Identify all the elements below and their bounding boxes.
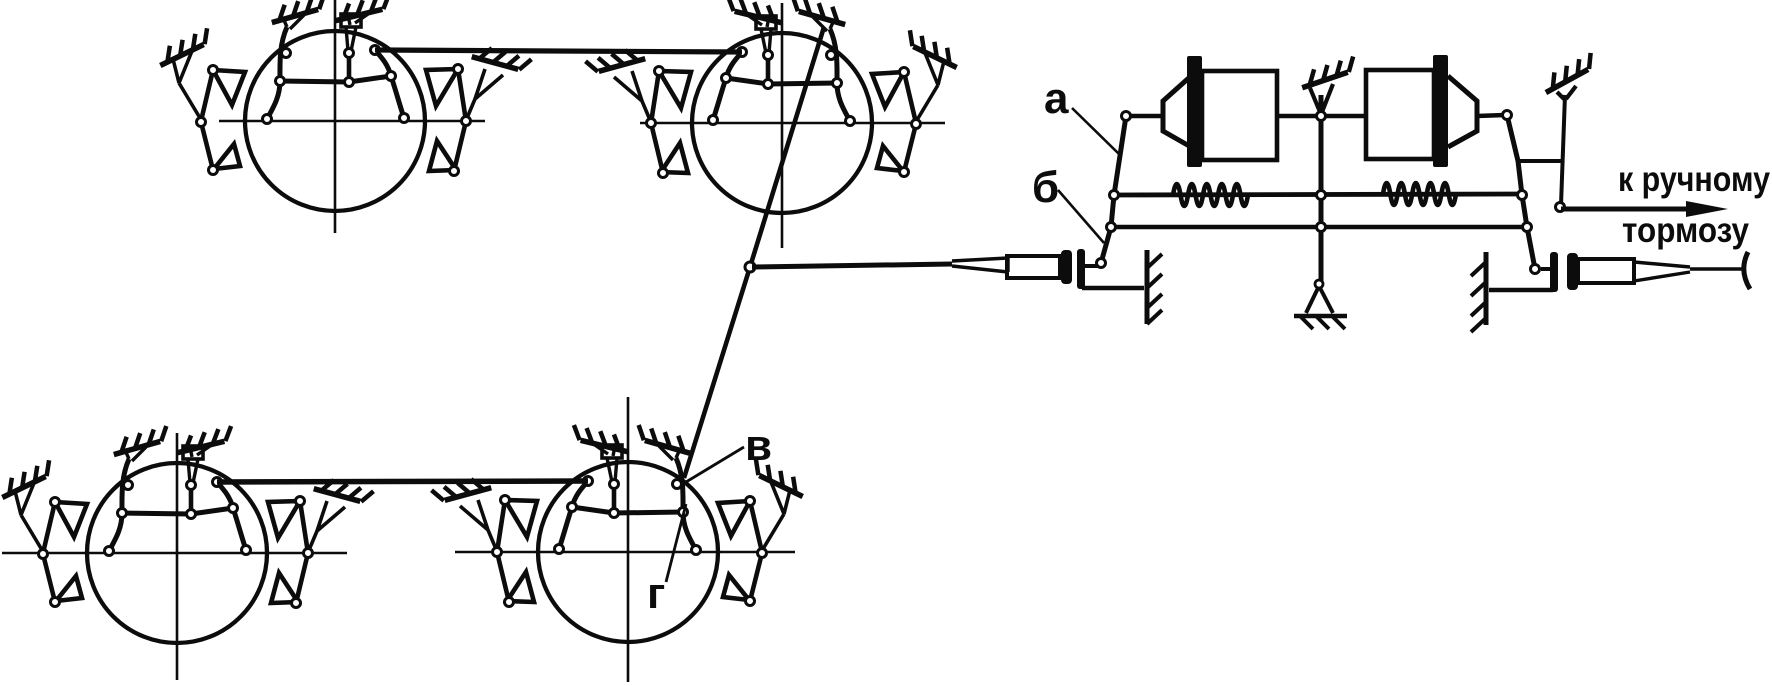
svg-text:в: в bbox=[745, 421, 772, 470]
cylinder 1 cone bbox=[1163, 76, 1191, 147]
right fork bracket bbox=[1541, 267, 1552, 271]
rod end bracket bbox=[1744, 252, 1750, 289]
svg-text:к ручному: к ручному bbox=[1618, 160, 1770, 199]
hand brake arrow bbox=[1561, 207, 1692, 212]
right main lever bbox=[1507, 115, 1535, 269]
left fork bracket bbox=[1077, 249, 1085, 289]
left main lever bbox=[1101, 116, 1126, 263]
spring bar with two springs bbox=[1114, 194, 1521, 195]
cylinder 2 body bbox=[1366, 70, 1434, 159]
cylinder 1 body bbox=[1202, 71, 1277, 160]
left turnbuckle body bbox=[1007, 256, 1060, 278]
cylinder 2 piston plate bbox=[1433, 55, 1448, 167]
link to hand brake column bbox=[1518, 159, 1564, 163]
wheel assembly 1 (front left) bbox=[154, 0, 532, 211]
wheel assembly 4 (rear right, mirrored) bbox=[432, 425, 810, 642]
cylinder 1 piston plate bbox=[1187, 56, 1202, 167]
piston rod left bbox=[1126, 114, 1163, 119]
top connecting rod wheel1-wheel2 bbox=[375, 50, 742, 52]
centre lever bbox=[1319, 95, 1324, 282]
lever nodes bbox=[1122, 112, 1131, 121]
bottom connecting rod wheel3-wheel4 bbox=[217, 481, 588, 482]
left anchor link and hatched wall bbox=[1082, 286, 1144, 291]
lower tie bar bbox=[1111, 225, 1529, 230]
hand brake top support bbox=[1539, 53, 1598, 93]
svg-text:тормозу: тормозу bbox=[1622, 211, 1749, 250]
junction node on pull rod bbox=[745, 262, 755, 272]
hand brake vertical link bbox=[1561, 95, 1565, 205]
right turnbuckle bbox=[1567, 253, 1578, 290]
svg-text:г: г bbox=[647, 569, 665, 618]
wheel axle centrelines bbox=[334, 0, 337, 233]
wheel assembly 3 (rear left) bbox=[0, 426, 373, 643]
centre top support bbox=[1298, 56, 1358, 87]
cylinder 2 cone bbox=[1448, 76, 1477, 147]
tapered rod end bbox=[952, 258, 1008, 272]
centre bottom pivot support bbox=[1306, 286, 1333, 313]
right anchor link and hatched wall bbox=[1489, 288, 1553, 293]
long diagonal pull rod bbox=[684, 27, 824, 478]
connecting stem centre bbox=[1277, 114, 1366, 119]
horizontal rod to brake cylinder rig bbox=[752, 264, 952, 267]
svg-text:б: б bbox=[1032, 163, 1059, 212]
wheel assembly 2 (front right, mirrored) bbox=[586, 0, 964, 213]
svg-text:а: а bbox=[1044, 74, 1069, 123]
piston rod right bbox=[1477, 115, 1505, 116]
